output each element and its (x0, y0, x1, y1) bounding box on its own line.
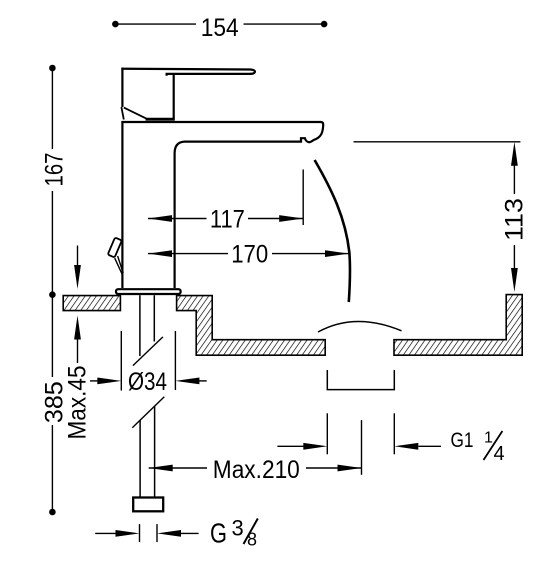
water stream arc (315, 160, 350, 302)
dimension 170 line (148, 253, 349, 255)
dimension O34 extension lines (121, 331, 175, 391)
supply hose lower (140, 407, 155, 497)
dimension Max.45 lower arrow (77, 336, 79, 363)
base flange (116, 289, 181, 294)
dimension O34 arrows (90, 380, 207, 382)
dimension 117 line (148, 218, 303, 220)
dimension 385 end dot (49, 509, 56, 516)
svg-text:170: 170 (231, 241, 268, 269)
supply pipe upper (140, 295, 154, 356)
G1 1/4 fraction slash (484, 431, 503, 460)
dimension 113 text (500, 198, 528, 241)
dimension 154 text (201, 14, 239, 42)
svg-text:8: 8 (247, 529, 257, 549)
dimension G1 1/4 extension lines (327, 413, 394, 454)
handle neck (173, 75, 175, 119)
dimension G 3/8 arrows (95, 532, 198, 534)
svg-text:167: 167 (41, 153, 69, 187)
faucet body and spout outline (122, 122, 323, 288)
svg-text:G1: G1 (451, 429, 474, 452)
svg-text:Max.210: Max.210 (213, 456, 300, 484)
svg-text:3: 3 (232, 515, 244, 540)
dimension G 3/8 text (210, 515, 257, 549)
G 3/8 fraction slash (244, 519, 258, 545)
drain axis extension line (361, 420, 363, 475)
dimension 170 arrows (148, 250, 172, 257)
dimension 117 extension line (302, 170, 304, 226)
svg-text:Max.45: Max.45 (64, 366, 92, 440)
svg-text:117: 117 (210, 206, 245, 234)
basin bottom curve (318, 321, 402, 332)
svg-text:4: 4 (494, 443, 505, 465)
dimension Max.210 line (149, 467, 362, 469)
pop-up drain lever knob (108, 238, 122, 258)
dimension 117 text (210, 206, 245, 234)
dimension 113 extension line (354, 141, 521, 143)
pop-up lever stem (115, 256, 124, 275)
dimension G 3/8 ticks (140, 524, 158, 542)
dimension 167 end dots (49, 65, 56, 298)
handle junction bar (146, 118, 175, 121)
dimension 113 arrows (511, 142, 518, 166)
dimension Max.45 upper arrow (77, 246, 79, 269)
dimension 113 line (513, 165, 515, 269)
dimension 385 text (41, 381, 69, 423)
dimension 154 end dots (112, 21, 327, 28)
countertop left section (63, 296, 120, 311)
svg-text:113: 113 (500, 198, 528, 241)
dimension Max.210 text (213, 456, 300, 484)
dimension Max.210 arrows (149, 465, 173, 472)
svg-text:G: G (210, 517, 227, 548)
dimension G1 1/4 text (451, 429, 505, 465)
handle left edge (121, 68, 123, 107)
dimension 167 text (41, 153, 69, 187)
hose end fitting (133, 498, 163, 512)
countertop right section with end upstand (394, 295, 522, 356)
drain bracket (327, 370, 394, 390)
dimension G1 1/4 arrows (277, 445, 441, 447)
svg-text:Ø34: Ø34 (128, 368, 167, 396)
pipe break line lower (132, 397, 164, 428)
countertop middle section with step (177, 296, 326, 356)
dimension Max.45 text (64, 366, 92, 440)
dimension 170 text (231, 241, 268, 269)
svg-text:154: 154 (201, 14, 239, 42)
dimension 154 line (115, 23, 324, 25)
svg-text:1: 1 (484, 430, 493, 447)
handle wedge diagonal (124, 108, 147, 119)
dimension 385 line (51, 295, 53, 512)
pipe break line upper (133, 337, 163, 366)
dimension 117 arrows (148, 215, 172, 222)
dimension 167 line (51, 68, 53, 295)
faucet handle lever blade (121, 69, 255, 76)
dimension O34 text (128, 368, 167, 396)
handle front step (121, 107, 123, 120)
